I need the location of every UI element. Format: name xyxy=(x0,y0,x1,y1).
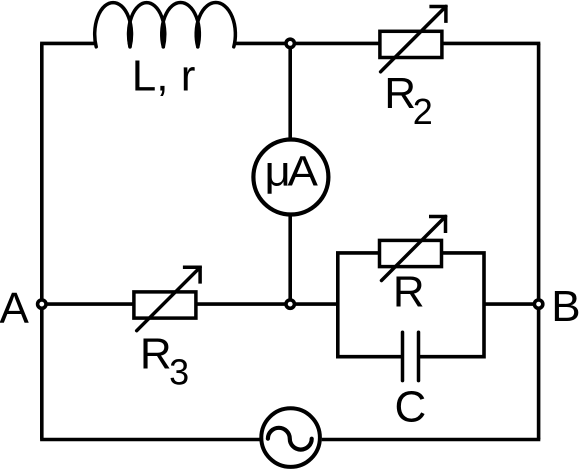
wire: middle row RC block to B xyxy=(484,302,539,306)
wire: top segment from inductor to R2 xyxy=(234,42,380,46)
wire: bottom right segment xyxy=(322,438,541,442)
resistor R2 box xyxy=(380,31,442,57)
resistor R3 arrow xyxy=(137,267,200,330)
inductor L (with internal resistance r) xyxy=(95,2,236,46)
wire: left rail xyxy=(40,43,44,439)
resistor R box xyxy=(380,240,442,266)
node top center xyxy=(286,39,294,47)
resistor R2 arrow xyxy=(381,7,446,72)
svg-text:μA: μA xyxy=(264,148,318,196)
wire: middle row R3 to RC block xyxy=(196,302,338,306)
wire: middle row A to R3 xyxy=(42,302,134,306)
wire: bottom left segment xyxy=(40,438,260,442)
wire: center column (top node to center node) xyxy=(288,43,292,304)
wire: right rail xyxy=(537,43,541,439)
svg-text:A: A xyxy=(0,284,30,333)
svg-text:R: R xyxy=(393,268,425,317)
node A xyxy=(38,300,46,308)
wire: top segment from R2 to right corner xyxy=(442,42,540,46)
microammeter M1 (uA) xyxy=(253,140,328,215)
node center xyxy=(286,300,294,308)
svg-text:B: B xyxy=(551,282,580,331)
capacitor C plates xyxy=(401,332,405,380)
RC block rectangle xyxy=(338,253,484,357)
resistor R3 box xyxy=(134,292,196,318)
wire: top segment from left corner to inductor xyxy=(40,42,96,46)
AC source V1 xyxy=(261,408,320,467)
svg-text:C: C xyxy=(395,382,427,431)
resistor R arrow xyxy=(382,217,446,281)
svg-text:L, r: L, r xyxy=(132,52,196,101)
node B xyxy=(534,300,542,308)
